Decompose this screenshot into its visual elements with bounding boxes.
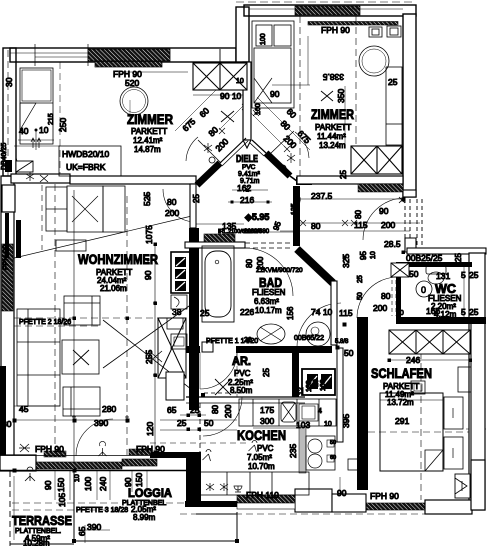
dim chain corridor y235 (296, 222, 420, 224)
dashed line top edge (236, 1, 416, 3)
svg-text:◆5.95: ◆5.95 (244, 212, 269, 222)
dashed corridor right verticals (404, 199, 406, 248)
svg-text:10: 10 (396, 310, 404, 317)
sill lines top-right wall (249, 8, 403, 10)
center crosses dims (72, 301, 157, 419)
small table wohnzimmer (56, 240, 86, 251)
svg-text:525: 525 (142, 192, 152, 206)
svg-text:520: 520 (125, 78, 139, 88)
svg-text:KOCHEN: KOCHEN (237, 428, 286, 443)
svg-text:200: 200 (256, 256, 265, 270)
wall wohnzimmer bottom block left (0, 455, 36, 471)
svg-text:2100/680: 2100/680 (244, 229, 270, 235)
svg-text:PARKETT: PARKETT (131, 127, 167, 136)
wall right exterior (WC+SCHLAFEN) (469, 253, 485, 510)
wardrobe hatch schlafen (389, 330, 470, 354)
closet zimmer-left (20, 68, 53, 144)
chair marks diele left (26, 172, 34, 181)
chair symbol wohnz bottom (99, 441, 107, 456)
svg-text:131: 131 (436, 271, 450, 281)
wall black outer face bottom-left (0, 366, 6, 456)
terrasse dashed edge (9, 471, 11, 546)
electrical panel wohnzimmer (171, 252, 190, 293)
wall divider top-left (219, 49, 221, 62)
svg-text:6.63m²: 6.63m² (254, 297, 279, 306)
svg-text:FPH 90: FPH 90 (136, 444, 165, 454)
plant symbols kitchen window (206, 483, 228, 491)
svg-text:25: 25 (454, 253, 463, 262)
dashed verticals zimmer-right (299, 16, 301, 176)
dim line 90/10 chimney (193, 94, 247, 96)
svg-text:150: 150 (56, 478, 66, 492)
svg-text:30: 30 (2, 419, 12, 429)
svg-text:80: 80 (167, 197, 177, 207)
svg-text:38: 38 (172, 307, 182, 317)
svg-text:325: 325 (341, 254, 351, 268)
svg-text:115: 115 (339, 308, 353, 318)
svg-text:10: 10 (324, 421, 332, 428)
sight diagonal line wohnzimmer (10, 215, 196, 259)
dashed line kitchen bottom (180, 513, 470, 515)
svg-text:150: 150 (134, 473, 144, 487)
wall bad top (185, 242, 245, 248)
svg-text:25: 25 (357, 275, 364, 283)
svg-text:13.72m: 13.72m (387, 398, 414, 407)
kitchen sink with X (281, 402, 296, 422)
svg-text:237.5: 237.5 (311, 191, 333, 201)
svg-text:10: 10 (39, 125, 49, 135)
wall schlafen bottom right block (425, 500, 472, 514)
svg-text:FPH 90: FPH 90 (321, 25, 350, 35)
dim vertical ar x237 (236, 352, 238, 397)
wall bad east (331, 281, 337, 345)
wall corridor/bad vertical black (293, 186, 300, 246)
svg-text:10.17m: 10.17m (255, 306, 282, 315)
svg-text:TERRASSE: TERRASSE (12, 513, 72, 528)
door arc entry small (16, 155, 33, 172)
washing machine bad (306, 322, 330, 346)
wall schlafen right inner line (470, 324, 472, 500)
wall left exterior upper (3, 48, 16, 176)
sill lines inside top-left wall (10, 52, 88, 54)
wall wc left (396, 262, 401, 324)
svg-text:162: 162 (237, 183, 251, 193)
svg-text:ZIMMER: ZIMMER (127, 112, 173, 127)
svg-text:25: 25 (177, 418, 187, 428)
diag dim lines diele right (257, 97, 310, 150)
closet zimmer-right (252, 21, 294, 108)
wall corridor upper right step (403, 190, 416, 197)
wall diagonal diele-right black (266, 153, 290, 176)
door arc bad (245, 248, 293, 296)
svg-text:338.5: 338.5 (322, 72, 344, 82)
svg-text:UK=FBRK: UK=FBRK (66, 162, 106, 172)
svg-text:7.05m²: 7.05m² (247, 453, 272, 462)
svg-text:291: 291 (395, 416, 409, 426)
window hatch left wall (wohnzimmer) (2, 244, 13, 311)
svg-text:PFETTE 1 14/20: PFETTE 1 14/20 (206, 338, 258, 345)
dashed vertical entry x42 (41, 185, 43, 250)
door arc ar (200, 352, 237, 389)
door arc zimmer-left (diele) (186, 137, 198, 161)
svg-text:25: 25 (388, 77, 398, 87)
svg-text:115: 115 (354, 220, 368, 230)
svg-text:PVC: PVC (234, 369, 251, 378)
round table zimmer-right (359, 46, 389, 76)
wall pier black entry (5, 213, 9, 258)
corridor dim lines (232, 189, 268, 191)
svg-text:25: 25 (190, 405, 200, 415)
radiator schlafen window (458, 367, 471, 392)
svg-text:25: 25 (469, 307, 479, 317)
svg-text:10.28m: 10.28m (23, 539, 50, 546)
svg-text:200: 200 (373, 303, 387, 313)
svg-text:50: 50 (204, 418, 214, 428)
svg-text:300: 300 (260, 416, 274, 426)
wall diagonal bad NE black (297, 249, 333, 283)
svg-text:AR.: AR. (232, 356, 251, 368)
dim line 390 wohnz (14, 419, 127, 421)
wall above WC (00B25) (407, 248, 486, 254)
svg-text:135: 135 (291, 203, 298, 215)
window hatch top-left wall (88, 49, 170, 61)
dashed double vertical left of wc (391, 280, 393, 316)
dim horizontal schlafen 246 (389, 359, 470, 361)
dim line 338.5 (272, 84, 310, 86)
svg-text:200: 200 (224, 404, 233, 418)
svg-text:SCHLAFEN: SCHLAFEN (371, 366, 432, 381)
svg-text:FPH 90: FPH 90 (370, 491, 399, 501)
dim vertical x155 (154, 244, 156, 452)
svg-text:138: 138 (306, 380, 313, 392)
wall zimmer-right bottom (297, 176, 403, 184)
svg-text:45: 45 (19, 404, 29, 414)
wall diagonal diele-left thin part (220, 138, 246, 163)
svg-text:1075: 1075 (144, 225, 154, 244)
sofa wohnzimmer (17, 309, 60, 406)
X mark AR (215, 379, 231, 395)
wall diagonal diele-left black (197, 163, 220, 185)
chimney X-box wohnzimmer (158, 318, 186, 378)
label HWDB box (59, 146, 121, 176)
svg-text:255: 255 (144, 350, 154, 364)
window hatch top-right wall (295, 6, 360, 15)
wall wc top (396, 262, 472, 267)
wall diele V notch (243, 140, 251, 148)
wall kitchen/schlafen black (357, 317, 368, 490)
svg-text:LOGGIA: LOGGIA (128, 486, 172, 500)
svg-text:250: 250 (58, 118, 68, 132)
svg-text:80: 80 (311, 221, 321, 231)
X mark zimmer-right (321, 91, 333, 101)
wall right upper (right edge of ZIMMER right) (403, 14, 416, 197)
svg-text:105: 105 (57, 493, 67, 507)
svg-text:PFETTE 2 18/26: PFETTE 2 18/26 (19, 319, 71, 326)
diag dim lines diele left (175, 86, 220, 131)
wall bad bottom middle segment (236, 346, 332, 353)
door arc loggia (76, 419, 113, 456)
svg-text:25: 25 (262, 368, 271, 377)
X mark small bad wt (149, 351, 162, 362)
svg-text:90: 90 (337, 488, 347, 498)
svg-text:25: 25 (469, 270, 479, 280)
round table zimmer-left (120, 87, 148, 115)
radiator hatch bad top (204, 234, 235, 242)
dim vertical x74 (73, 190, 75, 471)
dim line left of entry y150 (14, 145, 60, 147)
door handle marks kitchen (203, 450, 212, 462)
svg-text:30: 30 (4, 77, 14, 87)
svg-text:90 10: 90 10 (220, 91, 242, 101)
chimney X-box zimmer-right (351, 146, 402, 174)
svg-text:14.87m: 14.87m (134, 145, 161, 154)
svg-text:HWDB20/10: HWDB20/10 (62, 149, 110, 159)
X mark zimmer-left (221, 111, 234, 122)
svg-text:60: 60 (330, 455, 336, 461)
wall left exterior lower (1, 176, 14, 456)
wall kitchen bottom white parts (295, 489, 332, 512)
svg-text:90: 90 (123, 477, 133, 487)
TEL box (167, 318, 183, 329)
window hatch schlafen bottom (366, 503, 425, 510)
loggia boundary (73, 471, 75, 543)
svg-text:280: 280 (102, 404, 116, 414)
wall black kitchen bottom strip (185, 501, 238, 507)
wall top-right exterior band (244, 5, 416, 16)
small window band FPH90 loggia (129, 449, 151, 455)
svg-text:00B25/25: 00B25/25 (406, 253, 443, 263)
entry door leaf (16, 161, 33, 172)
TV box kitchen (348, 459, 359, 470)
chimney X-box top-center (193, 63, 247, 90)
svg-text:5.8/8: 5.8/8 (335, 339, 349, 345)
bathtub (202, 246, 234, 322)
big X over chimney area (103, 301, 196, 393)
wall black kitchen south-west staircase (150, 452, 201, 503)
svg-text:FPH 90: FPH 90 (1, 245, 10, 270)
svg-text:10: 10 (313, 379, 320, 387)
svg-text:PVC: PVC (257, 444, 274, 453)
small window band FPH90 terrace (44, 451, 66, 457)
window hatch kitchen bottom (237, 495, 295, 503)
solid line schlafen right (466, 428, 486, 430)
dim verticals wc (463, 267, 465, 317)
wall kitchen/schlafen west line (337, 348, 343, 442)
wall entry horizontal (11, 174, 70, 183)
svg-text:100: 100 (320, 379, 327, 391)
svg-text:25: 25 (200, 308, 210, 318)
bed schlafen (380, 393, 443, 471)
wall top-left exterior band (10, 48, 236, 62)
wall schlafen bottom-right corner (471, 460, 485, 510)
toilet wc (426, 266, 446, 274)
washbasin bad (257, 324, 285, 344)
svg-text:160: 160 (255, 103, 262, 115)
dashed vertical wohnzimmer x127 (126, 196, 128, 455)
wall pier black entry inner (16, 220, 21, 258)
svg-text:156: 156 (286, 306, 295, 320)
wall black wohnzimmer/bad vertical (189, 228, 199, 410)
svg-text:10: 10 (236, 78, 244, 85)
armchair top (64, 296, 100, 325)
dashed vertical wohnzimmer x55 (54, 184, 56, 455)
wall stub bad bottom (202, 342, 213, 352)
wall diele central vertical (243, 62, 251, 140)
wall ar/kitchen boundary (186, 396, 305, 398)
svg-text:FPH 90: FPH 90 (35, 444, 64, 454)
svg-text:28.5: 28.5 (384, 239, 401, 249)
svg-text:5: 5 (461, 307, 466, 317)
svg-text:65: 65 (167, 405, 177, 415)
svg-text:50: 50 (357, 292, 364, 300)
svg-text:395: 395 (341, 414, 351, 428)
N3 box (171, 334, 187, 349)
dim lines kitchen bottom (339, 477, 341, 512)
window symbol box schlafen right (455, 474, 470, 498)
svg-text:90: 90 (270, 89, 280, 99)
X mark entry wall (40, 175, 48, 182)
window band FPH90 right zimmer (308, 22, 398, 26)
dim marks diagonal crosses (219, 104, 290, 152)
svg-text:4: 4 (318, 408, 322, 415)
window hatch wohnzimmer bottom (36, 462, 122, 469)
svg-text:166: 166 (426, 306, 440, 316)
kitchen counter top row (239, 399, 336, 426)
svg-text:240: 240 (98, 477, 108, 491)
svg-text:200: 200 (165, 208, 179, 218)
svg-text:WOHNZIMMER: WOHNZIMMER (78, 252, 158, 267)
armchair bottom (63, 387, 100, 416)
wall corridor right step lower (405, 238, 416, 252)
svg-text:9.41m²: 9.41m² (238, 171, 260, 178)
door arc wc (357, 277, 398, 318)
svg-text:12: 12 (298, 387, 305, 395)
svg-text:8.50m: 8.50m (230, 386, 253, 395)
svg-text:65: 65 (77, 526, 87, 536)
dim chain kitchen y428 (253, 427, 299, 429)
svg-text:103: 103 (296, 420, 310, 430)
arrows entry (31, 138, 41, 148)
svg-text:FPH 110: FPH 110 (246, 490, 279, 500)
intercom box (171, 295, 187, 309)
svg-text:11.44m²: 11.44m² (317, 132, 346, 141)
coffee table with X (62, 340, 99, 374)
door arc ar-to-kitchen (203, 397, 242, 436)
dim ticks top-left wall (35, 44, 130, 120)
kitchen stove (299, 404, 318, 421)
svg-text:215: 215 (48, 113, 55, 125)
dashed lines loggia (12, 502, 237, 504)
svg-text:80: 80 (354, 210, 363, 219)
dim vertical zimmer-right x345 (344, 86, 346, 146)
svg-text:80: 80 (381, 291, 391, 301)
window sill band below top-left wall (95, 62, 162, 68)
wall wc bottom / schlafen top (396, 317, 486, 324)
svg-text:50: 50 (409, 269, 419, 279)
svg-text:80: 80 (211, 405, 220, 414)
svg-text:5: 5 (461, 270, 466, 280)
small X-box wc (391, 263, 409, 277)
svg-text:95: 95 (359, 251, 368, 260)
svg-text:FLIESEN: FLIESEN (252, 288, 286, 297)
dashed schlafen bed centerlines (420, 330, 422, 500)
window hatch band 2 wohnzimmer bottom (122, 459, 157, 466)
svg-text:10: 10 (370, 251, 377, 259)
TV box corridor (411, 381, 425, 394)
svg-text:50: 50 (330, 440, 336, 446)
nightstand bottom (444, 437, 463, 469)
svg-text:350: 350 (336, 89, 346, 103)
door arc schlafen corridor (363, 198, 405, 240)
window box left wall (2, 185, 15, 212)
svg-text:216: 216 (240, 195, 254, 205)
svg-text:DB40/25: DB40/25 (1, 143, 8, 170)
wall diagonal diele-right thin part (252, 140, 266, 153)
svg-text:25: 25 (192, 194, 201, 203)
svg-text:21.06m: 21.06m (100, 284, 127, 293)
wall black at diagonal meet (296, 177, 312, 185)
dim line 520 (122, 71, 188, 73)
svg-text:8.99m: 8.99m (133, 513, 156, 522)
wall ar east black (292, 347, 299, 397)
wall zimmer-left bottom (70, 176, 196, 184)
svg-text:PFETTE 3 18/28: PFETTE 3 18/28 (76, 507, 128, 514)
svg-text:200: 200 (381, 220, 395, 230)
chair+table terrasse (19, 444, 30, 452)
svg-text:100: 100 (260, 33, 267, 45)
door arc wohnzimmer (163, 189, 196, 222)
radiator hatch zimmer-right bottom (358, 184, 403, 192)
svg-text:0: 0 (421, 285, 426, 295)
kitchen east column (299, 426, 306, 473)
svg-text:120: 120 (145, 422, 155, 436)
node dots on dimension lines (13, 129, 473, 544)
svg-text:40: 40 (19, 126, 29, 136)
dim chain ar/kitchen y420 (160, 419, 237, 421)
svg-text:50: 50 (344, 348, 354, 358)
wall bad bottom left segment (183, 346, 200, 353)
chimney stub below (166, 372, 184, 400)
svg-text:226: 226 (240, 307, 254, 317)
svg-text:00B65/22: 00B65/22 (294, 335, 324, 342)
door arc kitchen (297, 303, 341, 347)
tick crosses on corridor dim line (243, 186, 405, 203)
wohnzimmer bottom wall line (0, 470, 196, 472)
kitchen bottom row (199, 472, 309, 495)
svg-text:10.70m: 10.70m (248, 462, 275, 471)
svg-text:10: 10 (74, 474, 81, 482)
electrical panel ar (302, 369, 335, 395)
svg-text:100: 100 (83, 477, 93, 491)
svg-text:25: 25 (339, 170, 348, 179)
svg-text:13.24m: 13.24m (319, 141, 346, 150)
svg-text:235: 235 (288, 444, 298, 458)
dim verticals zimmer-left (59, 62, 61, 176)
svg-text:390: 390 (87, 522, 101, 532)
svg-text:PARKETT: PARKETT (315, 123, 351, 132)
svg-text:12.41m²: 12.41m² (133, 136, 163, 145)
svg-text:ZIMMER: ZIMMER (311, 107, 354, 122)
wall vertical connector top-center (236, 7, 249, 62)
svg-text:90: 90 (43, 480, 53, 490)
door arc zimmer-right (diele) (295, 132, 309, 158)
svg-text:175: 175 (260, 405, 274, 415)
window symbols zimmer-right top (369, 26, 401, 37)
dashed pfette2 line (14, 317, 158, 319)
wall bad door dashed opening (245, 242, 293, 244)
nightstand top (444, 397, 463, 429)
svg-text:246: 246 (406, 355, 420, 365)
